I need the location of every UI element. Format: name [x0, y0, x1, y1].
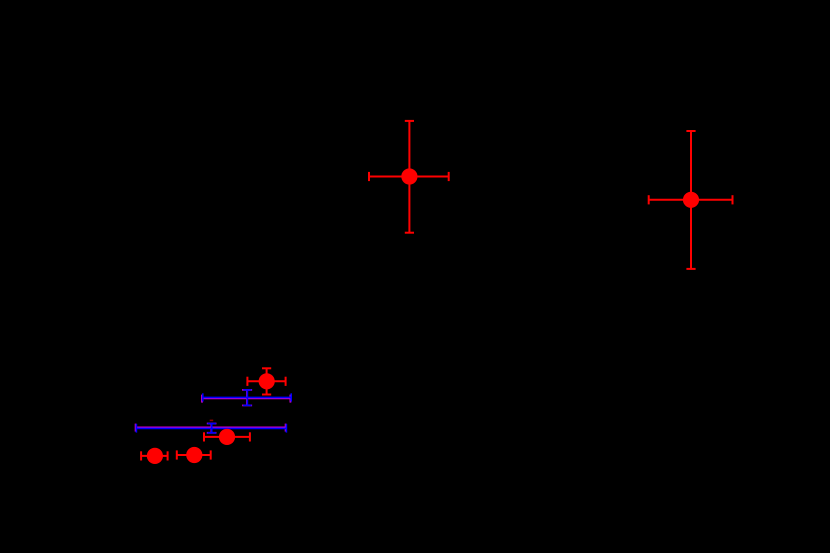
- error bar M1 tick (magenta under B1 tick): [242, 390, 252, 406]
- error bar M2 tick (magenta under B2 tick): [207, 424, 217, 433]
- hidden red cap above blue tick B2: [210, 420, 214, 422]
- error bar M1 (magenta underlay of B1 line): [202, 395, 290, 403]
- data point R2 (red cross, upper right): [649, 131, 733, 269]
- error bar M2 (magenta underlay of B2 line): [136, 424, 286, 432]
- data point R6 (red point, bottom middle): [177, 447, 211, 463]
- error bar B2 (blue, long lower bar): [136, 424, 286, 433]
- data point R1 (red cross, upper left): [369, 121, 449, 233]
- data point R3 (red point in cluster, top): [247, 368, 285, 394]
- error bar B1 (blue, upper cluster): [203, 390, 291, 406]
- data point R5 (red point, bottom left): [141, 448, 168, 464]
- data point R4 (red point, middle of cluster): [204, 429, 250, 445]
